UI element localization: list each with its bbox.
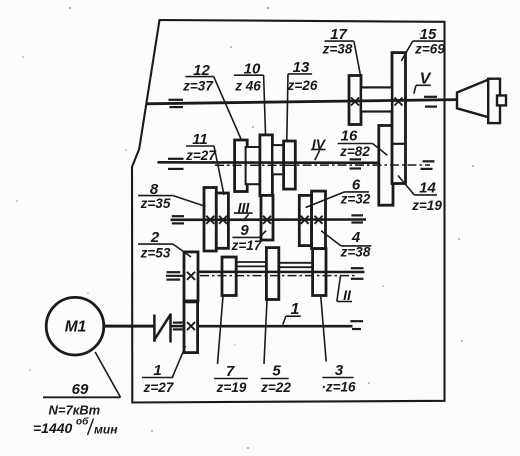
svg-text:14: 14	[419, 180, 436, 197]
svg-text:2: 2	[150, 229, 160, 246]
svg-text:z=27: z=27	[143, 380, 175, 395]
svg-text:z=27: z=27	[185, 148, 217, 163]
svg-text:=1440: =1440	[33, 420, 73, 436]
svg-text:z=19: z=19	[216, 380, 247, 395]
svg-text:M1: M1	[65, 319, 87, 336]
svg-text:III: III	[238, 200, 251, 216]
svg-text:1: 1	[291, 301, 300, 318]
svg-text:z 46: z 46	[234, 79, 261, 94]
svg-text:15: 15	[420, 26, 437, 43]
svg-text:4: 4	[351, 229, 361, 246]
svg-text:N=7кВт: N=7кВт	[49, 403, 101, 418]
svg-text:5: 5	[272, 363, 281, 380]
svg-text:II: II	[343, 287, 352, 303]
svg-text:3: 3	[335, 362, 344, 379]
svg-text:z=22: z=22	[260, 380, 291, 395]
svg-text:мин: мин	[94, 423, 118, 437]
svg-text:z=37: z=37	[182, 79, 214, 94]
svg-text:1: 1	[153, 362, 161, 379]
svg-text:17: 17	[330, 26, 347, 43]
svg-text:об: об	[76, 416, 89, 428]
svg-text:16: 16	[341, 128, 358, 145]
svg-text:z=26: z=26	[287, 78, 318, 93]
svg-text:69: 69	[72, 381, 89, 398]
svg-text:z=53: z=53	[140, 246, 171, 261]
svg-text:z=38: z=38	[322, 42, 353, 57]
svg-text:z=35: z=35	[140, 196, 171, 211]
svg-text:11: 11	[192, 131, 208, 148]
svg-text:z=17: z=17	[231, 238, 263, 253]
svg-text:z=82: z=82	[339, 144, 370, 159]
svg-text:7: 7	[226, 363, 235, 380]
svg-text:9: 9	[240, 222, 249, 239]
svg-text:IV: IV	[312, 136, 327, 152]
svg-text:V: V	[420, 71, 432, 88]
svg-text:z=38: z=38	[340, 245, 371, 260]
svg-text:z=69: z=69	[414, 42, 445, 57]
svg-text:z=19: z=19	[411, 198, 442, 213]
svg-text:13: 13	[293, 59, 310, 76]
svg-text:10: 10	[244, 61, 261, 78]
svg-text:z=32: z=32	[340, 192, 371, 207]
svg-text:·z=16: ·z=16	[321, 380, 356, 395]
svg-text:12: 12	[193, 62, 210, 79]
